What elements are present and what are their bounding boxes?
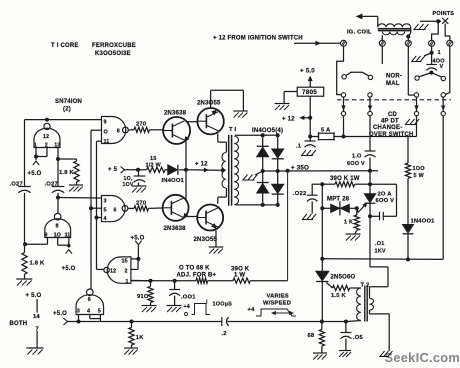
svg-text:+ 12 FROM IGNITION SWITCH: + 12 FROM IGNITION SWITCH [213,36,303,42]
svg-text:1.8 K: 1.8 K [30,260,45,266]
svg-text:270: 270 [136,122,146,128]
svg-text:W/SPEED: W/SPEED [263,301,291,307]
svg-text:12: 12 [110,268,116,274]
svg-text:1KV: 1KV [375,249,386,255]
svg-text:IG. COIL: IG. COIL [347,30,372,36]
svg-text:.O1: .O1 [375,241,384,247]
svg-text:6OO V: 6OO V [347,161,365,167]
svg-text:1K: 1K [136,335,144,341]
svg-text:4: 4 [87,308,90,314]
svg-text:T I: T I [229,127,237,133]
svg-text:15: 15 [122,258,128,264]
svg-text:+ 12: + 12 [195,162,208,168]
svg-text:O: O [184,312,188,318]
svg-text:2N3O55: 2N3O55 [194,237,218,243]
svg-text:1OOµS: 1OOµS [213,301,233,307]
svg-text:1.5 K: 1.5 K [331,293,346,299]
svg-text:.1: .1 [296,144,302,150]
svg-text:1OV: 1OV [123,182,134,188]
svg-text:O: O [104,130,108,136]
svg-text:+ 5.0: + 5.0 [300,68,315,75]
svg-text:1N4OO1: 1N4OO1 [411,219,436,225]
svg-text:POINTS: POINTS [433,11,455,17]
svg-text:5: 5 [104,207,107,213]
svg-text:BOTH: BOTH [10,321,28,327]
svg-text:68: 68 [308,333,315,339]
svg-text:39O K 1W: 39O K 1W [330,176,360,182]
svg-text:2N3638: 2N3638 [164,111,187,117]
svg-text:6: 6 [114,207,117,213]
svg-text:1.8 K: 1.8 K [59,170,74,176]
svg-text:+ 35O: + 35O [291,164,309,171]
svg-text:+ 12: + 12 [282,116,295,122]
svg-text:91O: 91O [137,294,149,300]
svg-text:1: 1 [438,50,441,56]
svg-text:1.O: 1.O [352,154,362,160]
svg-text:+5.O: +5.O [53,311,67,317]
svg-text:1 K: 1 K [344,220,353,226]
svg-text:1 W: 1 W [234,272,245,278]
svg-text:+5.O: +5.O [62,266,76,272]
svg-text:SeekIC.com: SeekIC.com [385,350,460,365]
svg-text:IN4OO5(4): IN4OO5(4) [252,128,283,134]
svg-text:K3OO5OI3E: K3OO5OI3E [95,51,131,57]
svg-text:5: 5 [98,308,101,314]
svg-text:14: 14 [33,314,40,320]
svg-text:2N5O6O: 2N5O6O [331,275,356,281]
svg-text:IN4OO1: IN4OO1 [162,178,185,184]
svg-text:3: 3 [104,198,107,204]
svg-text:2O A: 2O A [378,192,393,198]
svg-text:6: 6 [88,297,91,303]
svg-text:1OO: 1OO [413,166,426,172]
svg-text:+5.O: +5.O [131,236,145,242]
svg-text:(2): (2) [63,107,71,113]
svg-text:CHANGE-: CHANGE- [373,125,402,131]
svg-text:12: 12 [43,134,49,140]
svg-text:4P DT: 4P DT [381,119,399,125]
svg-text:8: 8 [56,224,59,230]
svg-text:V: V [440,64,444,70]
svg-text:15: 15 [150,156,157,162]
svg-text:VARIES: VARIES [267,294,289,300]
svg-text:2N3O55: 2N3O55 [197,100,221,106]
svg-text:MAL: MAL [386,81,400,87]
svg-text:.2: .2 [222,331,227,337]
svg-text:7805: 7805 [302,89,317,96]
svg-text:O TO 68 K: O TO 68 K [179,265,210,271]
svg-text:9: 9 [104,120,107,126]
svg-text:+4: +4 [184,304,190,310]
svg-text:CD: CD [388,112,398,118]
svg-text:+4: +4 [248,307,256,313]
svg-text:8: 8 [117,129,120,135]
svg-text:+5.O: +5.O [28,171,42,177]
svg-text:2N3638: 2N3638 [164,226,187,232]
svg-text:2: 2 [125,268,128,274]
svg-text:SN74ION: SN74ION [55,99,82,105]
svg-text:FERROXCUBE: FERROXCUBE [92,43,136,49]
svg-text:.O22: .O22 [293,191,306,197]
svg-text:6OO V: 6OO V [376,198,395,204]
svg-text:T I CORE: T I CORE [51,43,79,49]
svg-text:MPT 28: MPT 28 [327,197,350,203]
svg-text:3: 3 [77,308,80,314]
svg-text:+ 5: + 5 [108,167,118,173]
svg-text:.OO1: .OO1 [181,294,196,300]
svg-text:270: 270 [136,200,146,206]
svg-text:+ 5.O: + 5.O [26,293,42,299]
svg-text:.O5: .O5 [353,335,364,341]
svg-text:5 W: 5 W [414,173,425,179]
svg-text:NOR-: NOR- [386,74,402,80]
